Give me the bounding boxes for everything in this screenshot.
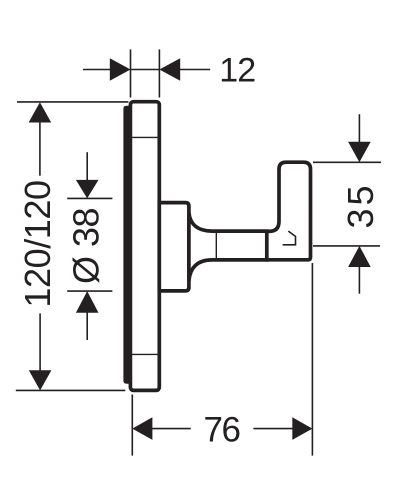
dimension 76: right arrow [292,417,312,440]
dimension 120/120: bottom arrow [29,370,52,390]
svg-text:Ø 38: Ø 38 [66,208,107,284]
dimension 12: left tail line [83,69,111,71]
dimension 120/120: upper line segment [39,121,41,176]
dimension 120/120: top arrow [29,102,52,122]
dimension 35: bottom arrow (up) [348,246,371,267]
dimension 35: bottom extension line [313,245,380,247]
svg-text:12: 12 [219,52,255,90]
wall flange strip (back plate) [124,106,130,383]
plate seam line lower [132,353,158,355]
sleeve flange (Ø38 collar) [159,203,189,291]
dimension 120/120: lower line segment [39,313,41,371]
dimension 76: left arrow [132,417,152,440]
dimension 12: right extension line [158,49,160,97]
dimension 35: bottom tail line [358,267,360,294]
dimension 76: right line segment [253,428,293,430]
dimension 35: top arrow (down) [348,142,371,163]
svg-text:120/120: 120/120 [17,180,58,307]
dimension 120/120: bottom extension line [16,389,126,391]
dimension 12: connecting line between extension lines [131,69,160,71]
lever underside detail hook [283,231,296,245]
dimension Ø38: bottom tick line [67,290,112,292]
trumpet stem and neck cylinder [189,213,267,281]
dimension 12: right arrow [159,58,180,81]
dimension Ø38: bottom arrow (up) [76,291,99,313]
dimension 12: left extension line [130,49,132,97]
dimension 35: top extension line [313,161,381,163]
plate seam line upper [132,136,158,138]
dimension Ø38: top tail line [86,152,88,181]
lever handle (L-shaped blade and hub) [267,162,311,260]
dimension 35: top tail line [358,114,360,142]
escutcheon plate (side view, 12 mm thick) [130,102,159,391]
dimension 76: left extension line [131,395,133,456]
dimension 120/120: top extension line [17,101,128,103]
neck junction line [215,233,217,259]
dimension 76: right extension line [311,263,313,456]
dimension Ø38: top tick line [67,197,112,199]
svg-text:35: 35 [340,182,381,228]
dimension 12: left arrow [110,58,131,81]
dimension 12: right tail line [179,69,210,71]
dimension Ø38: top arrow (down) [76,180,99,199]
dimension Ø38: bottom tail line [86,312,88,340]
dimension 76: left line segment [151,428,191,430]
svg-text:76: 76 [204,411,240,450]
